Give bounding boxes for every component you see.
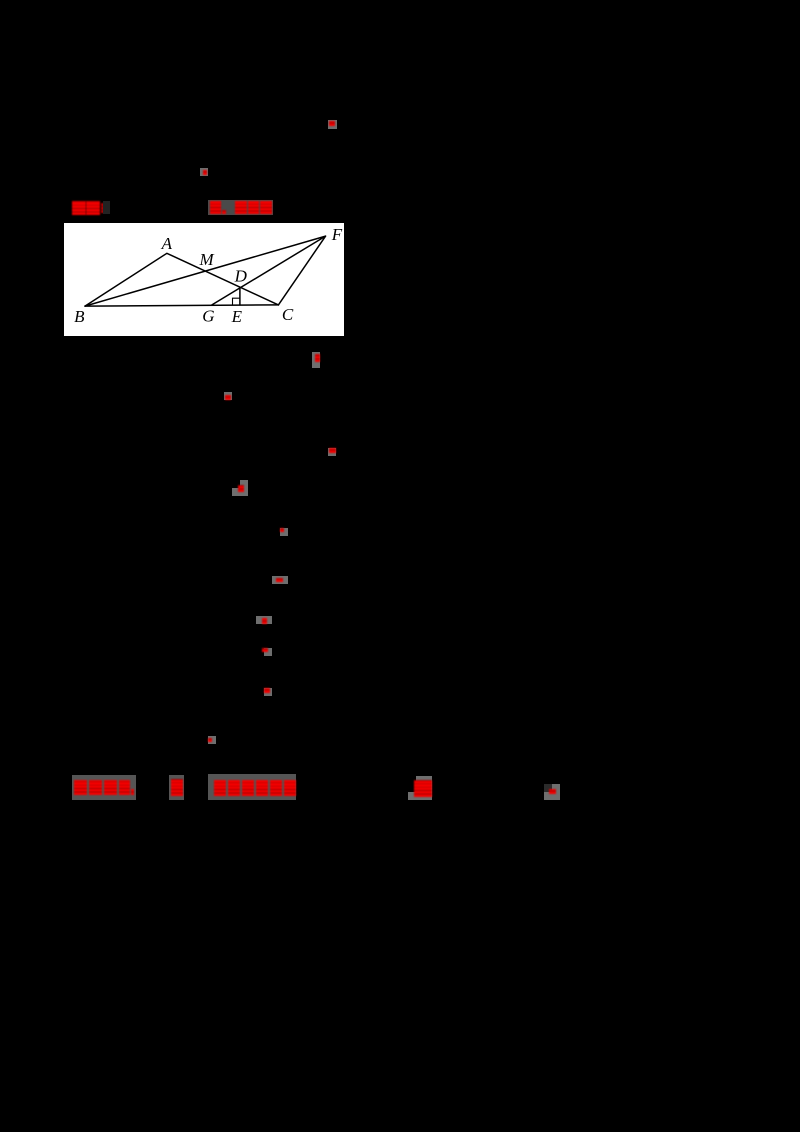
svg-text:B: B [74, 307, 85, 326]
svg-text:C: C [282, 305, 294, 324]
svg-text:F: F [331, 225, 343, 244]
svg-text:E: E [231, 307, 243, 326]
svg-text:M: M [199, 250, 215, 269]
svg-text:A: A [161, 234, 173, 253]
svg-text:D: D [234, 267, 248, 286]
svg-text:G: G [202, 307, 214, 326]
